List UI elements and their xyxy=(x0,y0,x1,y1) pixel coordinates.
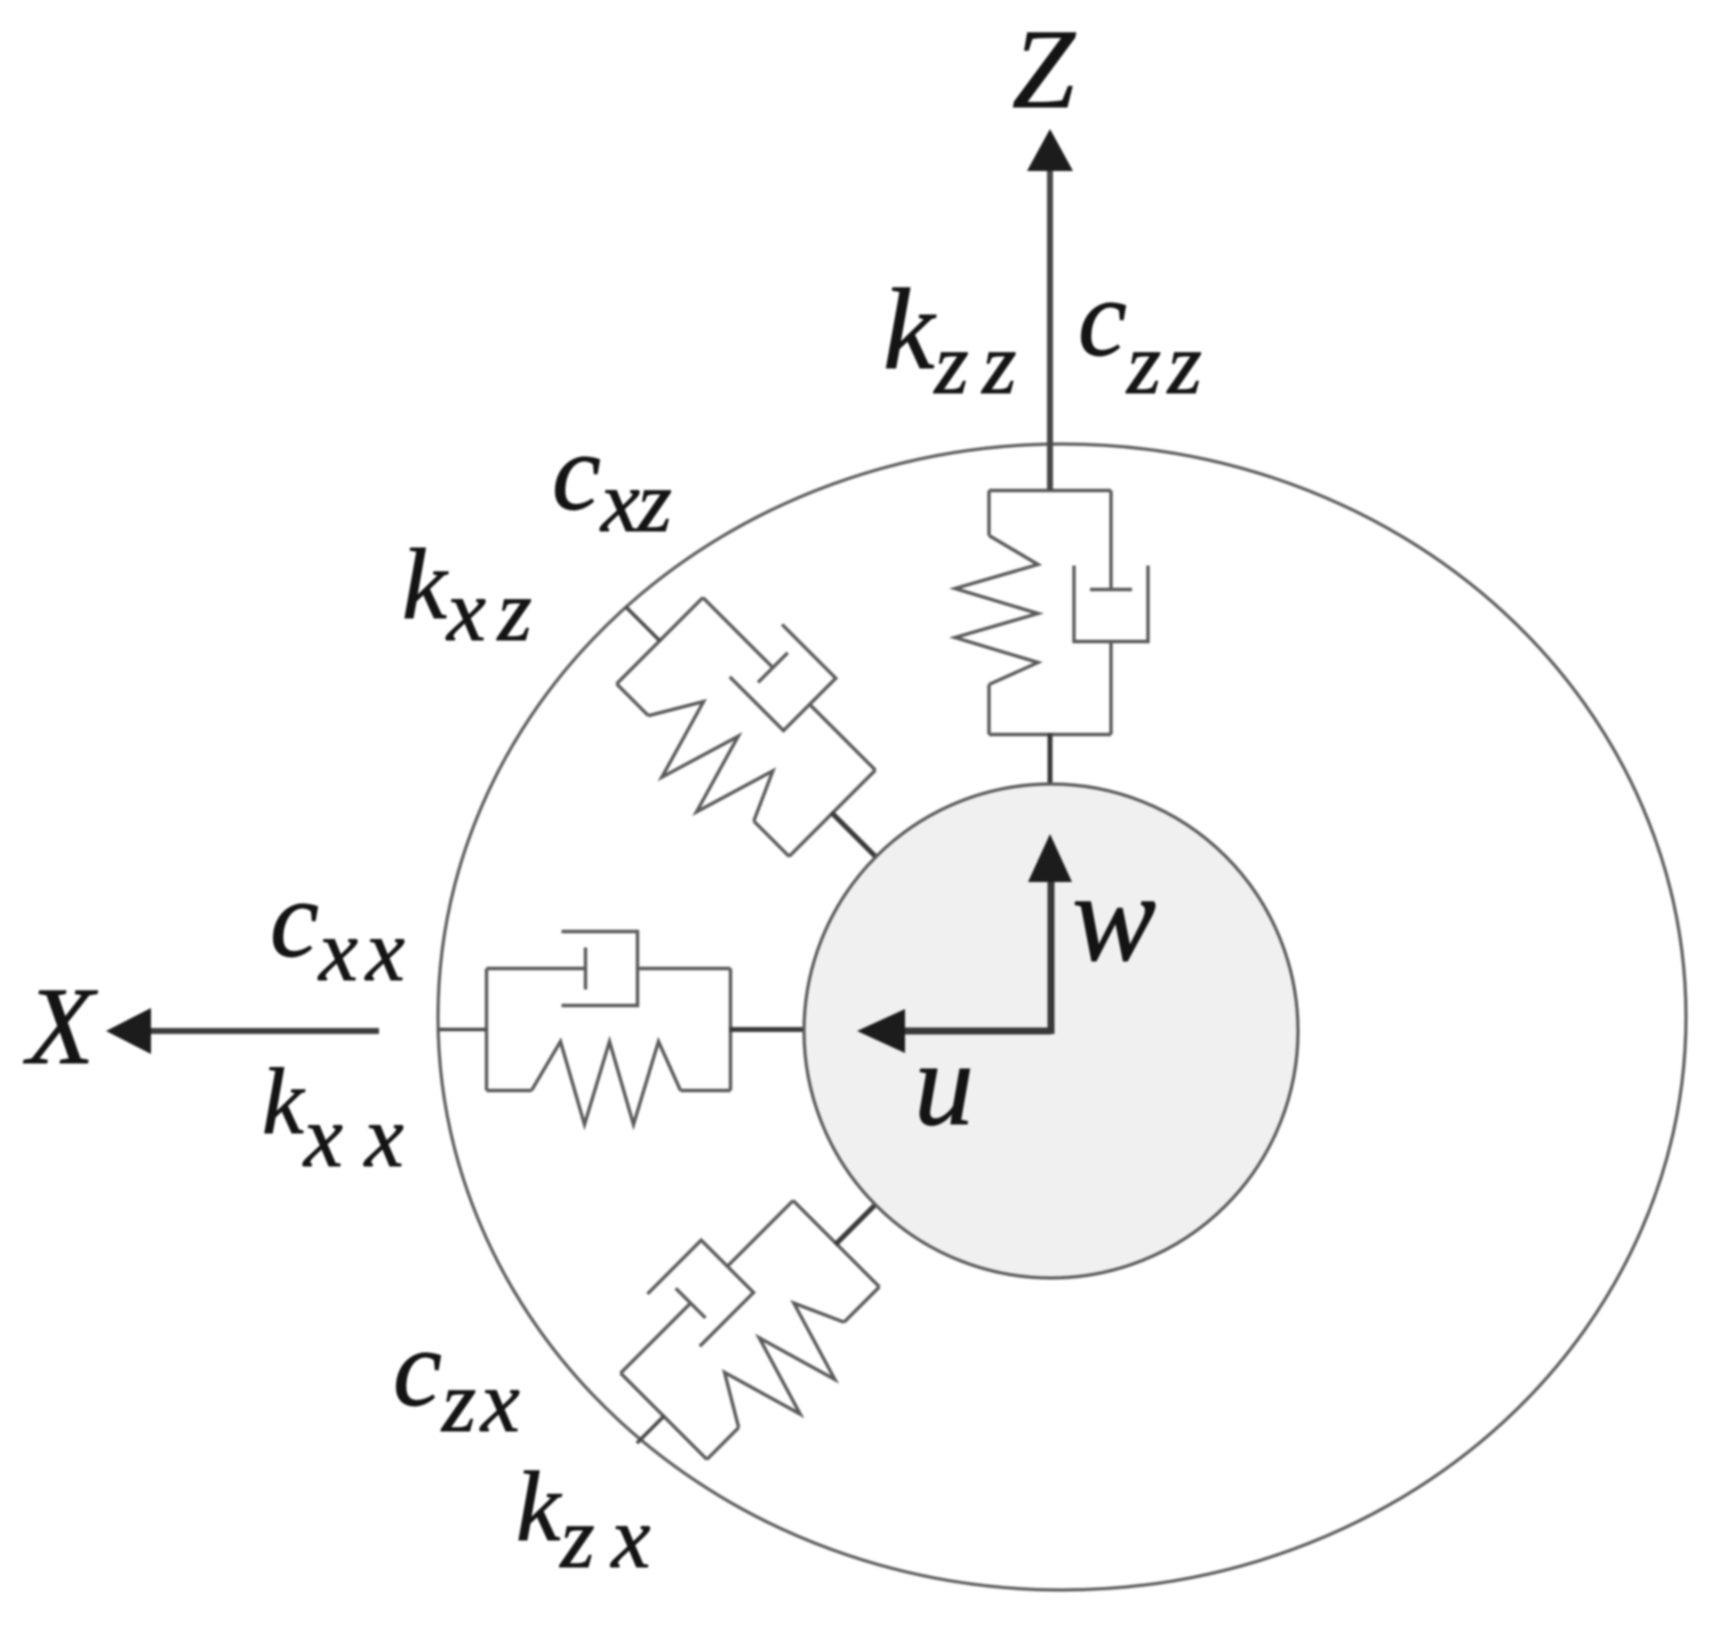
svg-text:u: u xyxy=(914,1017,974,1150)
svg-text:Z: Z xyxy=(1012,7,1076,132)
svg-text:kzz: kzz xyxy=(883,266,1017,413)
svg-text:w: w xyxy=(1072,849,1156,988)
svg-text:czz: czz xyxy=(1078,257,1202,413)
svg-text:czx: czx xyxy=(393,1307,520,1451)
svg-text:cxz: cxz xyxy=(552,411,672,551)
svg-text:kzx: kzx xyxy=(516,1451,650,1587)
svg-text:kxx: kxx xyxy=(262,1050,404,1186)
svg-text:cxx: cxx xyxy=(270,858,405,1000)
svg-text:kxz: kxz xyxy=(402,528,532,660)
svg-text:X: X xyxy=(23,965,98,1087)
